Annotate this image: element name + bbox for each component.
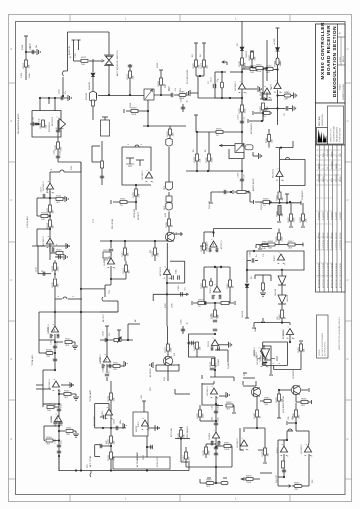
label U15 [256, 351, 258, 358]
label AUDIO IN [68, 46, 71, 55]
wire [175, 389, 190, 394]
wire [260, 472, 272, 474]
ground [229, 342, 232, 348]
svg-text:22K: 22K [272, 139, 274, 143]
resistor R5 [56, 198, 63, 201]
resistor R15 [43, 404, 59, 409]
svg-text:Q4 BC858: Q4 BC858 [293, 369, 295, 379]
junction [281, 322, 283, 324]
svg-text:LM358: LM358 [283, 329, 285, 336]
opamp U15 [260, 345, 271, 360]
resistor R31 [107, 365, 124, 368]
svg-text:22K: 22K [245, 62, 247, 66]
wire hop segment [50, 162, 81, 172]
svg-text:R241: R241 [108, 454, 110, 460]
ground [72, 346, 78, 349]
opamp U20 [276, 148, 283, 177]
wire [196, 75, 204, 98]
wire [281, 304, 283, 310]
wire [80, 288, 105, 290]
junction [230, 191, 232, 193]
svg-text:AF OUT: AF OUT [136, 452, 139, 460]
capacitor C27 [214, 411, 218, 413]
wire [58, 456, 60, 471]
mark [263, 462, 267, 464]
svg-text:10K: 10K [29, 64, 31, 68]
junction [54, 341, 56, 354]
loop U16 [202, 383, 219, 405]
svg-text:GND: GND [255, 327, 257, 332]
pot RV1 [114, 337, 121, 343]
res R70 [301, 203, 305, 227]
wire [58, 430, 65, 432]
svg-text:TL072: TL072 [270, 83, 272, 90]
capacitor C31 [263, 361, 267, 364]
loop right [280, 158, 306, 186]
capacitor C12 [57, 445, 61, 453]
svg-text:22K: 22K [114, 397, 116, 401]
jack hook [62, 71, 68, 97]
svg-text:APPROVED CHECKED DRAWN: APPROVED CHECKED DRAWN [335, 262, 338, 288]
wire [252, 67, 256, 69]
resistor R62 [256, 410, 259, 428]
opamp U3B [36, 381, 60, 404]
component reference labels [23, 42, 314, 491]
svg-text:47K: 47K [284, 99, 288, 101]
svg-text:MC33174: MC33174 [254, 347, 256, 357]
svg-text:220K: 220K [212, 157, 214, 163]
junction [39, 97, 56, 99]
label D2 [237, 43, 248, 58]
svg-text:MOD AUDIO LEVEL: MOD AUDIO LEVEL [282, 396, 285, 413]
wire [246, 86, 261, 92]
wire [166, 294, 168, 326]
wire [286, 431, 288, 441]
svg-text:MC33174: MC33174 [43, 236, 45, 246]
svg-text:R339: R339 [203, 449, 205, 455]
svg-text:R147: R147 [64, 390, 70, 392]
mark [188, 341, 203, 379]
transistor Q4 [291, 385, 300, 394]
svg-text:R227: R227 [165, 346, 167, 352]
svg-text:C86: C86 [288, 417, 290, 420]
rail 428 [243, 427, 265, 429]
wire [253, 111, 263, 115]
svg-text:TEST: TEST [143, 454, 145, 460]
svg-text:R359: R359 [206, 479, 212, 481]
svg-text:220K: 220K [246, 482, 252, 484]
svg-text:10K: 10K [200, 346, 202, 350]
resistor R57 [205, 444, 217, 458]
resistor R35 [110, 452, 113, 459]
capacitor C11 [53, 422, 62, 424]
svg-text:A: A [346, 48, 350, 50]
wire [167, 326, 169, 344]
svg-text:R243: R243 [178, 432, 180, 438]
label [251, 276, 253, 279]
label [169, 87, 182, 91]
riser3 [128, 324, 140, 340]
svg-text:10K: 10K [250, 72, 254, 74]
capacitor C5 [43, 194, 45, 198]
wire bus right [80, 162, 82, 472]
resistor R6 [49, 205, 52, 212]
label [267, 105, 269, 110]
svg-text:TL072: TL072 [102, 410, 104, 417]
opamp U21 [277, 254, 284, 260]
svg-text:4: 4 [336, 156, 338, 157]
resistor R13 [65, 341, 75, 346]
wire [105, 279, 111, 297]
resistor R24 [169, 126, 172, 139]
svg-text:1 of 1: 1 of 1 [340, 56, 342, 62]
pot RV2 [233, 190, 250, 194]
resistor R34 [110, 436, 113, 443]
svg-text:C172: C172 [211, 76, 213, 82]
svg-text:ALL RES 1/4W 5%: ALL RES 1/4W 5% [324, 341, 327, 356]
box U10 [133, 412, 148, 436]
wire loop2 [156, 364, 179, 371]
svg-text:APPROVED CHECKED DRAWN: APPROVED CHECKED DRAWN [318, 262, 321, 288]
label Q2 [174, 352, 176, 356]
stub 257 [55, 254, 67, 260]
resistor R54 [212, 359, 221, 367]
ground [294, 93, 297, 99]
wire [264, 106, 292, 110]
label [26, 216, 29, 228]
wire [54, 299, 56, 312]
svg-text:LM358: LM358 [209, 432, 211, 439]
svg-text:DISC AUDIO: DISC AUDIO [186, 426, 189, 438]
svg-text:C145: C145 [169, 85, 171, 91]
capacitor C7 [38, 246, 51, 276]
loop [260, 88, 272, 99]
label D1 [89, 82, 91, 90]
label [186, 426, 189, 438]
hang R40 [194, 43, 198, 76]
wire [200, 245, 204, 247]
svg-text:A: A [9, 358, 13, 360]
resistor R27 [168, 219, 171, 232]
capacitor C25 [213, 320, 217, 331]
label [263, 253, 265, 257]
wire [147, 100, 149, 126]
label [51, 165, 73, 170]
svg-text:10K: 10K [304, 348, 306, 352]
wire [289, 335, 291, 344]
svg-text:RX LINE LEVEL: RX LINE LEVEL [187, 69, 189, 84]
svg-text:MX800CTRL.DWG: MX800CTRL.DWG [343, 83, 345, 100]
top loop [204, 267, 230, 286]
svg-text:REV 4: REV 4 [343, 57, 345, 62]
coil L1 [245, 145, 253, 150]
label [209, 200, 211, 209]
rail 226 [214, 228, 273, 230]
wire hop2 [135, 145, 139, 147]
svg-text:R128: R128 [52, 265, 54, 271]
svg-text:R142: R142 [65, 338, 71, 340]
svg-text:MC33171: MC33171 [301, 444, 303, 454]
svg-text:JT: JT [327, 167, 329, 169]
svg-text:MC33174: MC33174 [49, 122, 51, 132]
svg-text:100n: 100n [29, 72, 31, 78]
capacitor [181, 104, 185, 112]
cap el [210, 278, 213, 286]
resistor RKEY [180, 430, 183, 437]
bus 216 [215, 396, 217, 483]
wire [109, 241, 113, 256]
opamp U23 [280, 440, 287, 452]
wire bus 282 [281, 270, 283, 276]
junction [215, 482, 217, 484]
junction [262, 68, 264, 70]
res R76 [277, 390, 281, 418]
label [208, 78, 220, 84]
cap C21 [221, 72, 224, 98]
svg-text:ECN-0231: ECN-0231 [319, 174, 321, 182]
svg-text:R409: R409 [276, 235, 278, 241]
resistor R2b [81, 59, 88, 62]
wire [263, 69, 272, 100]
svg-text:100K: 100K [224, 449, 230, 451]
riser [261, 318, 265, 322]
svg-text:R52: R52 [312, 480, 314, 483]
label [70, 52, 77, 58]
svg-text:ALL CAPS IN MICROFARADS: ALL CAPS IN MICROFARADS [321, 332, 324, 356]
opamp U22 [286, 329, 293, 335]
junction [221, 71, 231, 99]
junction [289, 201, 291, 203]
resistor R3 [42, 120, 45, 127]
junction [110, 445, 112, 447]
junction [54, 369, 56, 371]
svg-text:R193: R193 [167, 130, 169, 136]
svg-text:R HEWITT: R HEWITT [340, 212, 342, 220]
resistor R74 [281, 310, 284, 318]
wire [250, 192, 254, 204]
svg-text:10K: 10K [133, 75, 135, 79]
riser [105, 326, 109, 340]
resistor R50 [229, 280, 232, 303]
resistor R20 [129, 71, 132, 78]
svg-text:22K: 22K [268, 248, 272, 250]
svg-text:AF1 TOTAL: AF1 TOTAL [89, 455, 92, 467]
svg-text:1N4004: 1N4004 [246, 50, 248, 58]
svg-text:22K: 22K [264, 404, 268, 406]
note box [317, 315, 329, 358]
junction [241, 97, 243, 99]
svg-text:R422: R422 [279, 313, 281, 319]
resistor [103, 252, 111, 258]
cap input [100, 141, 104, 185]
address box [328, 106, 344, 144]
wire [255, 381, 257, 386]
junction [253, 250, 283, 271]
wire [265, 92, 267, 100]
svg-text:TL072: TL072 [210, 287, 212, 294]
wire [289, 323, 291, 325]
opamp U10 [141, 420, 148, 426]
wire [128, 64, 132, 95]
wire [50, 197, 65, 199]
relay K1 [144, 89, 154, 100]
opamp U3A [51, 312, 58, 332]
label [130, 102, 132, 108]
resistor R51 [198, 302, 229, 305]
wire [246, 270, 248, 283]
svg-text:BOARD RECEIVER: BOARD RECEIVER [326, 25, 331, 75]
wire [276, 90, 278, 125]
resistor R39 [241, 105, 244, 112]
wire [210, 368, 215, 377]
label TOTAL [31, 355, 34, 366]
svg-text:R397: R397 [276, 194, 278, 200]
svg-text:SPECTRA: SPECTRA [318, 116, 321, 126]
resistor R60 [185, 447, 188, 467]
junction [215, 403, 217, 448]
svg-text:ELECTRICAL DESIGN: ELECTRICAL DESIGN [318, 232, 321, 250]
svg-text:R411: R411 [268, 241, 274, 243]
svg-text:1N4148: 1N4148 [275, 288, 277, 296]
svg-text:R124: R124 [47, 222, 49, 228]
capacitor C29 [214, 447, 218, 455]
capacitor C13 [171, 93, 179, 97]
junction [102, 427, 112, 429]
loop U8 [166, 261, 185, 284]
wire [287, 421, 296, 425]
label [280, 59, 282, 65]
marks in loop [271, 356, 281, 364]
label +8V [141, 395, 143, 399]
svg-text:C176: C176 [237, 172, 239, 178]
label U1A [49, 122, 51, 132]
resistor R48 [260, 244, 272, 247]
capacitor C8 [50, 334, 59, 338]
resistor R61 [260, 400, 272, 403]
opamp U7 [103, 340, 110, 362]
svg-text:LM358: LM358 [104, 258, 106, 265]
svg-text:A: A [346, 438, 350, 440]
resistor R8 [49, 220, 52, 227]
ground [259, 153, 262, 159]
svg-text:ECN-0231: ECN-0231 [336, 174, 338, 182]
wire [215, 97, 242, 99]
res R71 [278, 229, 281, 245]
svg-text:10K: 10K [262, 248, 266, 250]
svg-text:R178: R178 [127, 73, 129, 79]
svg-text:A: A [346, 199, 350, 201]
svg-text:090595: 090595 [340, 176, 342, 182]
label [243, 373, 247, 376]
svg-text:R425: R425 [298, 346, 300, 352]
diode D5 [278, 276, 286, 285]
svg-text:R432: R432 [276, 396, 278, 402]
label [227, 362, 230, 369]
capacitor C30 [247, 258, 258, 262]
wire [198, 97, 215, 99]
opamp U6 [107, 258, 114, 279]
res R78 [295, 403, 298, 431]
junction [106, 339, 129, 341]
svg-text:220K: 220K [282, 236, 284, 242]
wire [209, 190, 231, 203]
resistor R72 [268, 243, 275, 246]
svg-text:A: A [9, 438, 13, 440]
svg-text:47K: 47K [46, 124, 48, 128]
wire [68, 32, 110, 96]
opamp U2A [46, 183, 53, 189]
svg-text:NOTES:: NOTES: [319, 349, 321, 356]
svg-text:47K: 47K [139, 193, 141, 197]
loop box U15 [263, 342, 288, 365]
svg-text:1N4148: 1N4148 [89, 82, 91, 90]
capacitor C22 [240, 121, 244, 123]
svg-text:MX800 CONTROLLER: MX800 CONTROLLER [320, 22, 325, 80]
svg-text:47K: 47K [266, 107, 268, 111]
opamp U19 [274, 83, 281, 89]
hook [215, 350, 228, 362]
label [157, 62, 167, 88]
junction [54, 273, 56, 275]
svg-text:MC145: MC145 [86, 92, 88, 100]
label [261, 201, 263, 210]
junction [49, 197, 51, 217]
svg-text:220K: 220K [171, 347, 173, 353]
svg-text:R311: R311 [227, 283, 229, 289]
svg-text:MC33171: MC33171 [52, 116, 54, 126]
opamp U2B [46, 238, 53, 244]
svg-text:R184: R184 [158, 80, 160, 86]
filter FL0 [166, 139, 172, 147]
svg-text:C146: C146 [181, 97, 183, 103]
svg-text:C192: C192 [211, 416, 213, 422]
resistor R33 [110, 393, 113, 400]
svg-text:C199: C199 [250, 251, 252, 257]
svg-text:R201: R201 [120, 198, 126, 200]
junction [49, 228, 51, 230]
svg-text:R246: R246 [239, 60, 241, 66]
diode marks [214, 266, 222, 268]
resistor R1 [25, 60, 28, 67]
feedback box U21 [247, 251, 304, 270]
svg-text:R283: R283 [194, 156, 196, 162]
svg-text:C131: C131 [21, 72, 23, 78]
res R82 [262, 99, 268, 121]
svg-text:100K: 100K [58, 266, 60, 272]
rail 467 [186, 466, 232, 468]
res R67 [278, 186, 281, 203]
feedback box [215, 72, 242, 98]
svg-text:KEY LINE: KEY LINE [171, 427, 173, 437]
revision table [316, 145, 346, 292]
wire [37, 229, 50, 246]
svg-text:R446: R446 [256, 64, 262, 66]
ground [70, 382, 73, 388]
junction [261, 120, 263, 122]
svg-text:APPROVED CHECKED DRAWN: APPROVED CHECKED DRAWN [339, 262, 342, 288]
ground [68, 95, 71, 101]
svg-text:R HEWITT: R HEWITT [336, 212, 338, 220]
capacitor C23 [240, 179, 244, 181]
label [106, 439, 108, 444]
svg-text:C150: C150 [103, 330, 105, 336]
label [164, 185, 166, 210]
wire bus left [49, 172, 51, 260]
svg-text:10K: 10K [128, 252, 130, 256]
svg-text:R407: R407 [288, 216, 290, 222]
capacitor C4 [56, 156, 60, 158]
svg-text:C137: C137 [54, 402, 56, 408]
